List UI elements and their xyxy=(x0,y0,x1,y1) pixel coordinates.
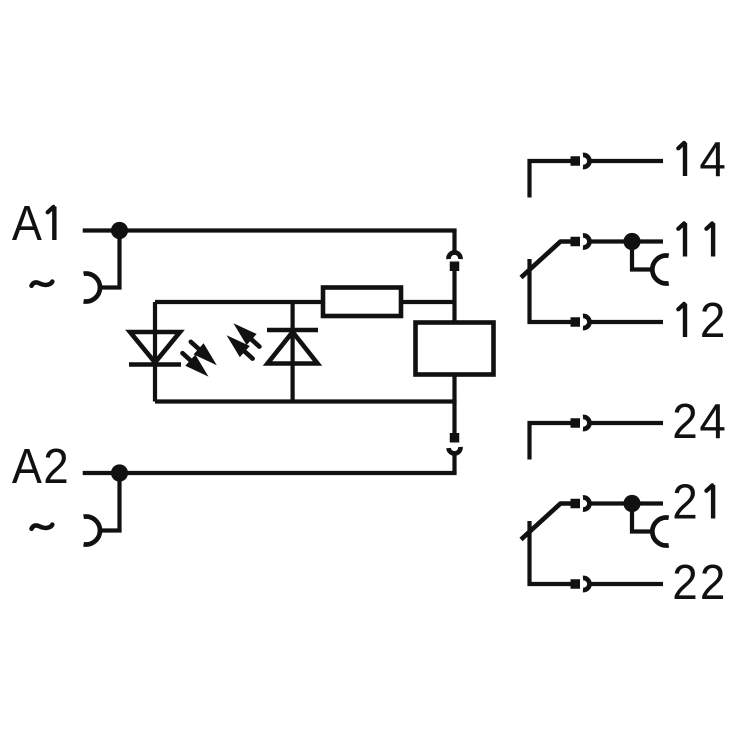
wire input top left xyxy=(155,300,325,304)
wire coil to lower pin xyxy=(452,375,456,434)
svg-text:2: 2 xyxy=(672,395,698,449)
relay coil K1 xyxy=(416,323,494,375)
wire A1 junction to clamp xyxy=(99,231,120,288)
plug socket 14 xyxy=(583,155,589,167)
contact label 12 xyxy=(678,304,685,337)
plug socket 12 xyxy=(583,316,589,328)
plug socket 21 xyxy=(583,498,589,510)
plug pin 12 xyxy=(571,317,581,327)
diode D2 xyxy=(267,330,318,364)
wire A2 junction to clamp xyxy=(99,473,120,531)
node junction A1 xyxy=(111,222,128,239)
svg-text:2: 2 xyxy=(43,440,69,494)
plug connector pin lower xyxy=(450,433,460,443)
wire coil branch upper xyxy=(452,231,456,252)
wire 11 xyxy=(592,239,664,243)
LED D1 xyxy=(129,332,181,365)
cage clamp terminal 11 xyxy=(652,256,668,284)
LED emission arrow 3 xyxy=(228,318,264,353)
plug pin 11 xyxy=(571,237,581,247)
LED emission arrow 1 xyxy=(186,336,222,371)
AC symbol at A2 xyxy=(32,525,53,529)
cage clamp terminal 21 xyxy=(652,518,668,546)
wire 14 xyxy=(592,159,664,163)
plug connector socket lower xyxy=(449,447,461,454)
resistor R1 xyxy=(323,288,401,317)
plug socket 22 xyxy=(583,578,589,590)
plug socket 11 xyxy=(583,236,589,248)
wire A2 horizontal xyxy=(83,471,457,475)
wire NO contact 24 xyxy=(530,423,572,460)
wire NC contact 12 xyxy=(530,259,572,322)
wire 21 junction to clamp xyxy=(632,504,652,532)
relay switch blade CO1 xyxy=(521,242,573,278)
wire resistor to coil line xyxy=(399,300,455,304)
wire NO contact 14 xyxy=(530,161,572,198)
LED emission arrow 4 xyxy=(222,330,258,365)
wire 24 xyxy=(592,421,664,425)
svg-text:2: 2 xyxy=(672,556,698,610)
wire input bottom xyxy=(155,399,457,403)
svg-text:4: 4 xyxy=(699,133,726,187)
relay switch blade CO2 xyxy=(521,504,573,540)
contact label 11 xyxy=(678,223,685,256)
plug pin 21 xyxy=(571,499,581,509)
plug connector socket upper xyxy=(449,253,461,259)
svg-text:4: 4 xyxy=(699,395,726,449)
LED emission arrow 2 xyxy=(177,348,213,383)
node junction 21 xyxy=(623,495,640,512)
LED branch wire xyxy=(153,302,157,402)
svg-text:A: A xyxy=(12,440,42,494)
cage clamp terminal A2 xyxy=(84,517,100,545)
diode branch wire xyxy=(291,302,295,402)
svg-text:2: 2 xyxy=(700,294,726,348)
contact label 14 xyxy=(678,143,685,176)
svg-text:2: 2 xyxy=(672,476,698,530)
wire 22 xyxy=(592,582,664,586)
wire 21 xyxy=(592,501,664,505)
plug pin 24 xyxy=(571,418,581,428)
node junction 11 xyxy=(623,233,640,250)
wire A1 horizontal xyxy=(83,228,457,232)
plug pin 14 xyxy=(571,156,581,166)
svg-text:A: A xyxy=(12,197,42,251)
wire NC contact 22 xyxy=(530,521,572,584)
wire socket to A2 line xyxy=(452,455,456,473)
wire 12 xyxy=(592,320,664,324)
svg-text:2: 2 xyxy=(700,556,726,610)
cage clamp terminal A1 xyxy=(84,274,100,302)
wire pin to coil xyxy=(452,271,456,323)
plug connector pin upper xyxy=(450,262,460,272)
plug socket 24 xyxy=(583,417,589,429)
AC symbol at A1 xyxy=(32,282,53,286)
node junction A2 xyxy=(111,464,128,481)
plug pin 22 xyxy=(571,579,581,589)
wire 11 junction to clamp xyxy=(632,242,652,270)
